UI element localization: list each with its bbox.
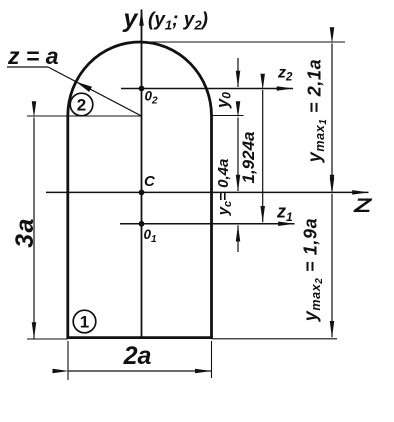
top extension line from arc apex — [142, 41, 346, 43]
extension below right bottom corner — [211, 341, 213, 378]
spring-line tick (right of section) — [212, 115, 244, 117]
z axis through C — [46, 191, 369, 193]
z1 axis through O1 — [120, 223, 295, 225]
dimension ymax2 = 1,9a (lower right) — [331, 194, 333, 337]
dimension ymax1 = 2,1a (upper right) — [331, 44, 333, 192]
dimension 1,924a (O2 to O1) — [262, 90, 264, 222]
spring-line extension (left of centre) — [27, 115, 142, 117]
bottom extension line right — [212, 338, 338, 340]
section outline: rectangle with semicircular top — [68, 42, 212, 338]
O1 dot — [139, 221, 145, 227]
part number 2 (semicircle) — [70, 93, 93, 116]
dimension 3a (left) — [33, 118, 35, 339]
dimension y0 upper outside arrow — [237, 58, 239, 87]
svg-text:3a: 3a — [11, 217, 39, 248]
leader arrowhead on arc — [76, 82, 92, 92]
centroid C dot — [139, 190, 145, 196]
dimension yc lower outside arrow — [237, 225, 239, 252]
dimension y0 / yc shared middle line — [237, 118, 239, 192]
svg-text:yc= 0,4a: yc= 0,4a — [215, 159, 234, 217]
svg-text:2a: 2a — [123, 342, 152, 370]
z2 axis through O2 — [121, 88, 293, 90]
extension below left bottom corner — [67, 341, 69, 380]
O2 dot — [139, 86, 145, 92]
svg-text:2: 2 — [77, 96, 86, 115]
part number 1 (rectangle) — [73, 310, 96, 333]
svg-text:Z: Z — [353, 196, 373, 217]
svg-text:1: 1 — [80, 313, 89, 332]
svg-text:1,924a: 1,924a — [239, 132, 258, 184]
svg-text:y: y — [122, 5, 139, 33]
svg-text:z = a: z = a — [7, 43, 59, 69]
y axis — [141, 10, 143, 339]
bottom extension line left — [27, 338, 68, 340]
svg-text:C: C — [144, 173, 156, 190]
dimension 2a (bottom) — [69, 370, 212, 372]
